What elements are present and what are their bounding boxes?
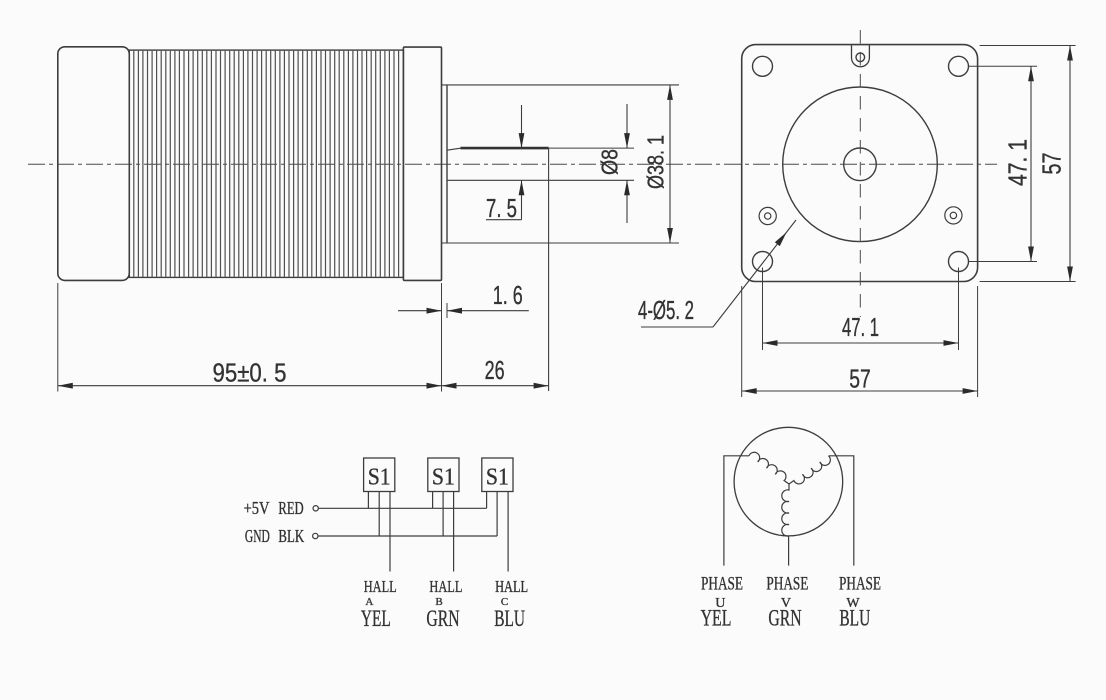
svg-text:HALL: HALL <box>364 577 397 596</box>
svg-text:RED: RED <box>278 498 303 518</box>
svg-text:47. 1: 47. 1 <box>842 312 879 342</box>
svg-text:57: 57 <box>1037 153 1067 175</box>
svg-text:BLU: BLU <box>839 606 870 631</box>
svg-text:Ø38. 1: Ø38. 1 <box>643 135 669 189</box>
svg-text:Ø8: Ø8 <box>597 149 623 175</box>
svg-text:BLK: BLK <box>278 526 304 546</box>
svg-text:HALL: HALL <box>429 577 462 596</box>
svg-text:BLU: BLU <box>494 606 525 631</box>
svg-text:HALL: HALL <box>495 577 528 596</box>
svg-text:GRN: GRN <box>426 606 459 631</box>
svg-text:4-Ø5. 2: 4-Ø5. 2 <box>638 295 694 325</box>
svg-text:S1: S1 <box>432 465 455 491</box>
svg-text:GND: GND <box>245 526 270 546</box>
svg-text:1. 6: 1. 6 <box>493 280 523 310</box>
svg-text:95±0. 5: 95±0. 5 <box>213 358 287 388</box>
svg-text:PHASE: PHASE <box>839 574 881 595</box>
svg-text:7. 5: 7. 5 <box>486 193 517 223</box>
svg-text:S1: S1 <box>368 465 391 491</box>
svg-text:YEL: YEL <box>361 606 391 631</box>
svg-text:PHASE: PHASE <box>766 574 808 595</box>
svg-text:+5V: +5V <box>244 498 270 518</box>
svg-text:47. 1: 47. 1 <box>1003 139 1033 186</box>
svg-text:26: 26 <box>485 355 505 385</box>
svg-text:YEL: YEL <box>701 606 732 631</box>
svg-text:PHASE: PHASE <box>701 574 743 595</box>
svg-text:S1: S1 <box>486 465 509 491</box>
svg-text:57: 57 <box>849 364 871 394</box>
svg-text:GRN: GRN <box>768 606 801 631</box>
